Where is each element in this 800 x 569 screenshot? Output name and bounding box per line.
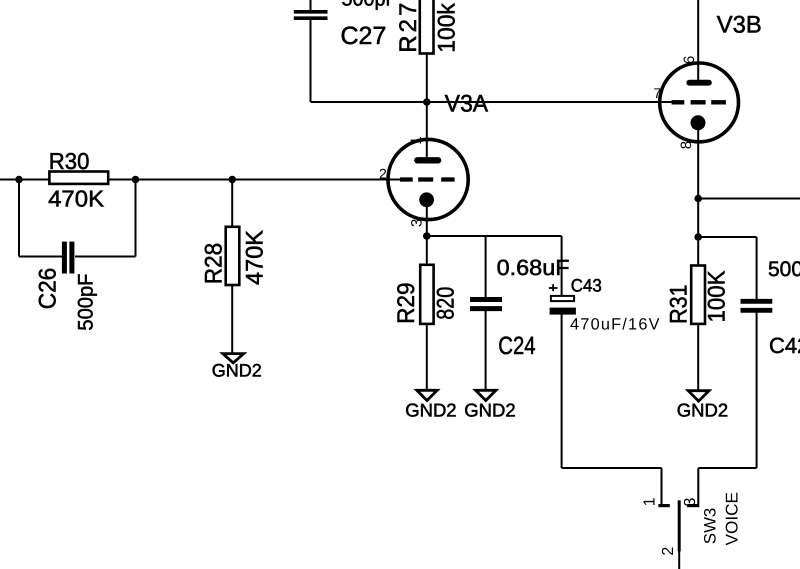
svg-text:C27: C27 [341, 22, 387, 50]
svg-text:C26: C26 [35, 268, 62, 310]
svg-text:2: 2 [379, 166, 387, 182]
svg-text:3: 3 [409, 219, 426, 227]
svg-text:470K: 470K [48, 186, 105, 212]
svg-text:V3B: V3B [717, 12, 762, 39]
svg-text:820: 820 [432, 287, 459, 320]
svg-text:470uF/16V: 470uF/16V [570, 316, 660, 334]
svg-text:SW3: SW3 [701, 508, 719, 544]
svg-text:R31: R31 [666, 284, 693, 324]
svg-text:VOICE: VOICE [722, 492, 741, 546]
svg-text:C24: C24 [498, 332, 535, 360]
svg-text:0.68uF: 0.68uF [497, 255, 570, 280]
svg-text:GND2: GND2 [677, 400, 728, 421]
svg-text:GND2: GND2 [405, 399, 456, 420]
svg-text:100K: 100K [704, 271, 731, 323]
svg-text:1: 1 [641, 497, 658, 506]
svg-text:R27: R27 [395, 3, 422, 53]
svg-text:100k: 100k [433, 2, 460, 52]
svg-text:6: 6 [681, 56, 698, 64]
svg-text:3: 3 [682, 498, 699, 507]
svg-text:C42: C42 [769, 333, 800, 358]
svg-text:GND2: GND2 [212, 361, 262, 381]
svg-text:7: 7 [654, 85, 662, 101]
svg-text:V3A: V3A [445, 90, 488, 117]
svg-text:500pF: 500pF [75, 274, 98, 331]
svg-text:R30: R30 [49, 148, 90, 174]
svg-text:470K: 470K [241, 230, 268, 285]
svg-text:R28: R28 [201, 243, 228, 285]
svg-text:500pF: 500pF [342, 0, 398, 11]
svg-text:500: 500 [768, 258, 800, 281]
svg-text:8: 8 [678, 141, 695, 149]
svg-text:C43: C43 [571, 275, 602, 295]
svg-text:GND2: GND2 [464, 399, 515, 420]
svg-text:2: 2 [660, 547, 677, 556]
svg-text:R29: R29 [393, 282, 420, 324]
svg-text:1: 1 [408, 136, 425, 144]
